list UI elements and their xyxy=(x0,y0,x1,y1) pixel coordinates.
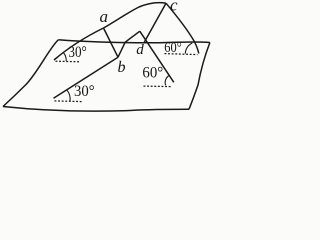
Vb up-right to edge xyxy=(118,42,125,57)
plane right edge xyxy=(189,43,210,110)
arc inner 60 angle xyxy=(165,75,169,85)
plane bottom edge xyxy=(3,107,189,112)
arc lower 30 angle xyxy=(67,90,70,101)
dashed reference line at lower 30 vertex xyxy=(55,100,84,103)
svg-text:30°: 30° xyxy=(74,83,95,100)
svg-text:b: b xyxy=(118,59,126,76)
dashed reference line at inner 60 vertex xyxy=(144,85,172,88)
arc upper 60 angle xyxy=(185,43,192,54)
svg-text:a: a xyxy=(100,7,109,26)
tent right line down to inner 60 vertex xyxy=(140,31,174,82)
svg-text:d: d xyxy=(136,42,144,58)
drop line from a to Vb xyxy=(104,28,119,57)
line a xyxy=(54,28,104,60)
svg-text:30°: 30° xyxy=(68,44,86,61)
tent left leg xyxy=(125,31,140,42)
dashed reference line at upper 30 vertex xyxy=(56,60,81,63)
svg-text:60°: 60° xyxy=(164,40,181,56)
svg-text:c: c xyxy=(170,0,178,14)
plane left edge xyxy=(3,40,58,107)
line from c apex down-right past edge xyxy=(166,3,199,53)
svg-text:60°: 60° xyxy=(142,64,163,81)
line from c apex down-left to d xyxy=(144,3,166,43)
arc upper 30 angle xyxy=(63,52,66,61)
plane top edge xyxy=(58,40,210,43)
hump curve a to c apex xyxy=(104,3,167,28)
line b projection xyxy=(54,57,119,98)
dashed reference line at upper 60 vertex xyxy=(165,54,198,55)
